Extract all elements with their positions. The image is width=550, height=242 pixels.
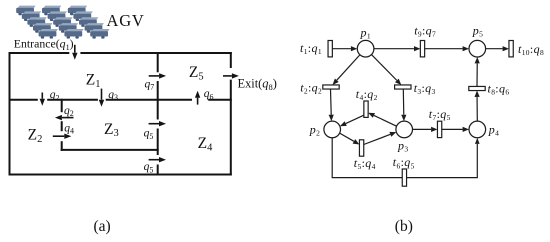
svg-text:q5: q5 [144, 161, 154, 174]
label p1 [360, 25, 371, 40]
label zone Z5 [189, 64, 204, 82]
transition t6:q5 [402, 169, 406, 186]
label zone Z3 [104, 121, 119, 139]
svg-text:p2: p2 [309, 122, 320, 137]
svg-text:p1: p1 [360, 25, 371, 40]
label t10:q8 [518, 42, 544, 57]
label q2 inner gate [64, 105, 74, 118]
label q5 lower gate [144, 161, 154, 174]
svg-text:Z1: Z1 [86, 72, 101, 90]
arc p1->t3 [371, 55, 401, 85]
svg-text:t10:q8: t10:q8 [518, 42, 544, 57]
arrow q2 down [40, 93, 45, 106]
arc p1->t9 [374, 46, 421, 51]
place p2 [324, 121, 341, 138]
svg-text:t1:q1: t1:q1 [300, 41, 322, 56]
transition t1:q1 [328, 41, 332, 57]
transition t2:q2 [323, 85, 339, 89]
arc p3->t7 [413, 127, 438, 132]
arc p5->t10 [486, 46, 509, 51]
svg-text:p4: p4 [488, 122, 499, 137]
svg-text:q7: q7 [145, 78, 155, 91]
label AGV [107, 11, 145, 30]
place p4 [469, 121, 486, 138]
label zone Z1 [86, 72, 101, 90]
label zone Z4 [198, 135, 213, 153]
label zone Z2 [28, 127, 43, 145]
label t6:q5 [393, 155, 415, 170]
label t7:q5 [429, 107, 451, 122]
svg-text:q4: q4 [64, 122, 74, 135]
svg-text:Z3: Z3 [104, 121, 119, 139]
arrow q4 right [53, 134, 72, 139]
place p3 [396, 121, 413, 138]
wire outer bottom border [9, 174, 232, 176]
svg-text:(a): (a) [94, 218, 111, 235]
arrow q7 right [149, 73, 166, 78]
wire inner vertical Z2-Z3 [61, 99, 63, 151]
wire p2 to t6 bottom path [332, 138, 402, 178]
svg-text:q3: q3 [108, 89, 118, 102]
arc p1->t2 [333, 55, 360, 85]
transition t10:q8 [509, 41, 513, 57]
arrow q5 lower right [149, 157, 166, 162]
wire outer left border [9, 52, 11, 176]
arrow q5 upper right [149, 121, 166, 126]
label p5 [472, 23, 483, 38]
AGV fleet icon [16, 6, 109, 39]
svg-text:Exit(q8): Exit(q8) [238, 77, 277, 92]
place p1 [357, 40, 374, 57]
svg-text:t6:q5: t6:q5 [393, 155, 415, 170]
svg-text:(b): (b) [395, 218, 413, 235]
transition t9:q7 [420, 41, 424, 57]
transition t8:q6 [469, 86, 485, 90]
transition t3:q3 [395, 85, 411, 89]
arc t9->p5 [425, 46, 469, 51]
arc p4->t8 [475, 91, 480, 122]
svg-text:q2: q2 [64, 105, 74, 118]
svg-text:t2:q2: t2:q2 [300, 81, 322, 96]
svg-text:q5: q5 [144, 128, 154, 141]
svg-text:t8:q6: t8:q6 [488, 82, 510, 97]
svg-text:t7:q5: t7:q5 [429, 107, 451, 122]
svg-text:AGV: AGV [107, 11, 145, 30]
arc t6->p4 [407, 138, 480, 178]
label p3 [397, 138, 408, 153]
label t2:q2 [300, 81, 322, 96]
svg-text:p3: p3 [397, 138, 408, 153]
wire horizontal divider [9, 99, 232, 101]
arc t8->p5 [475, 57, 480, 86]
transition t4:q2 [364, 101, 368, 117]
label q6 gate [204, 88, 214, 101]
arc t7->p4 [442, 127, 469, 132]
label t5:q4 [354, 156, 376, 171]
svg-text:Entrance(q1): Entrance(q1) [14, 37, 74, 52]
label t9:q7 [414, 23, 436, 38]
label q4 gate [64, 122, 74, 135]
label p4 [488, 122, 499, 137]
svg-text:q2: q2 [50, 89, 60, 102]
svg-text:q6: q6 [204, 88, 214, 101]
label Entrance(q1) [14, 37, 74, 52]
wire inner horizontal Z3 bottom [61, 149, 159, 151]
svg-text:p5: p5 [472, 23, 483, 38]
svg-text:Z2: Z2 [28, 127, 43, 145]
arrow exit q8 right [223, 73, 239, 78]
label t8:q6 [488, 82, 510, 97]
label q7 gate [145, 78, 155, 91]
svg-text:Z5: Z5 [189, 64, 204, 82]
label (a) [94, 218, 111, 235]
wire vertical divider Z1-Z5 [157, 53, 159, 175]
svg-text:t5:q4: t5:q4 [354, 156, 376, 171]
label t1:q1 [300, 41, 322, 56]
svg-text:t9:q7: t9:q7 [414, 23, 436, 38]
transition t5:q4 [359, 140, 363, 156]
arrow entrance q1 [72, 45, 77, 60]
transition t7:q5 [437, 121, 441, 137]
arc t3->p3 [401, 89, 406, 121]
arrow q3 down [99, 89, 104, 107]
arc t4->p2 [340, 115, 364, 126]
label q2 gate [50, 89, 60, 102]
svg-text:t4:q2: t4:q2 [356, 87, 378, 102]
arc t5->p3 [364, 132, 397, 145]
label q3 gate [108, 89, 118, 102]
label q5 upper gate [144, 128, 154, 141]
svg-text:Z4: Z4 [198, 135, 213, 153]
label (b) [395, 218, 413, 235]
arc p2->t5 [340, 133, 360, 144]
arc t2->p2 [329, 89, 334, 121]
svg-text:t3:q3: t3:q3 [414, 81, 436, 96]
label Exit(q8) [238, 77, 277, 92]
arc p3->t4 [368, 113, 396, 126]
arrow q2 left [55, 115, 74, 120]
arc t1->p1 [332, 46, 357, 51]
wire outer right border [230, 52, 232, 176]
wire outer top border [9, 52, 232, 54]
label p2 [309, 122, 320, 137]
label t3:q3 [414, 81, 436, 96]
place p5 [469, 40, 486, 57]
arrow q6 up [195, 91, 200, 105]
label t4:q2 [356, 87, 378, 102]
